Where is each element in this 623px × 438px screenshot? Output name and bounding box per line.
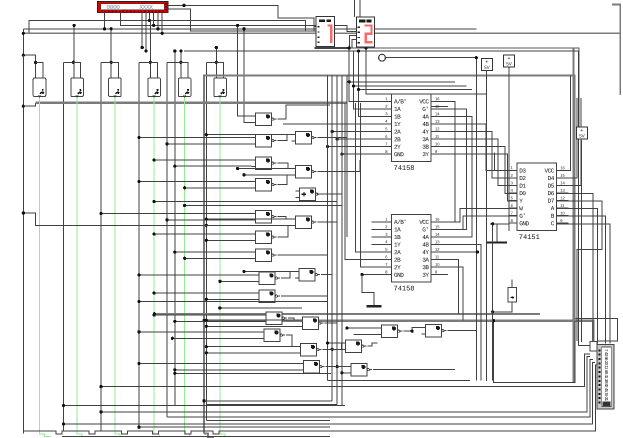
svg-text:A/B': A/B' <box>394 98 406 105</box>
gate U27 <box>297 344 322 356</box>
wire <box>205 224 208 227</box>
wire <box>185 187 252 189</box>
wire <box>139 61 150 63</box>
wire <box>411 330 414 333</box>
svg-text:2A: 2A <box>394 249 401 256</box>
wire <box>175 369 300 371</box>
svg-text:3Y: 3Y <box>422 151 429 158</box>
wire <box>179 49 182 52</box>
wire <box>205 319 208 322</box>
switch S2 <box>71 78 84 98</box>
gate U30 <box>347 364 372 376</box>
wire <box>431 251 477 253</box>
svg-text:4Y: 4Y <box>422 129 429 136</box>
wire <box>205 218 208 221</box>
wire <box>318 160 360 172</box>
svg-text:D3: D3 <box>519 168 526 175</box>
wire <box>244 271 295 273</box>
wire <box>206 61 216 63</box>
wire <box>242 270 245 273</box>
wire <box>350 36 357 48</box>
wire <box>202 319 205 322</box>
wire <box>62 436 330 438</box>
wire <box>242 173 245 176</box>
wire <box>161 32 164 35</box>
wire <box>139 181 252 183</box>
svg-text:0000: 0000 <box>106 4 120 11</box>
wire <box>23 213 251 226</box>
wire <box>101 354 590 387</box>
wire <box>318 221 338 223</box>
wire <box>99 410 102 413</box>
gate U31 <box>378 325 403 337</box>
wire <box>341 252 343 406</box>
power VCC2 +5V <box>504 55 515 67</box>
wire <box>347 327 378 329</box>
svg-text:5V: 5V <box>484 65 491 70</box>
wire <box>340 153 343 156</box>
wire <box>137 362 140 365</box>
wire <box>346 76 348 237</box>
svg-text:1Y: 1Y <box>394 121 401 128</box>
svg-text:74158: 74158 <box>393 285 414 293</box>
wire <box>153 200 156 203</box>
svg-text:G': G' <box>422 226 428 233</box>
wire <box>236 24 239 27</box>
wire <box>167 61 181 63</box>
wire <box>101 61 111 63</box>
power VCC1 +5V <box>482 58 493 70</box>
wire <box>173 372 176 375</box>
wire <box>154 97 165 436</box>
wire <box>345 103 372 260</box>
switch S6 <box>214 78 227 98</box>
wire <box>336 76 338 405</box>
gate U32 <box>422 325 447 337</box>
svg-text:74151: 74151 <box>519 234 540 242</box>
gate U23 <box>255 290 280 302</box>
wire <box>318 137 347 139</box>
wire <box>139 331 260 333</box>
svg-text:VCC: VCC <box>419 219 429 226</box>
svg-text:G': G' <box>519 213 525 220</box>
wire <box>172 337 260 339</box>
wire <box>349 81 455 83</box>
wire <box>175 372 331 374</box>
wire <box>149 21 151 79</box>
svg-text:3A: 3A <box>422 257 429 264</box>
wire <box>364 46 367 49</box>
svg-text:GND: GND <box>394 272 404 279</box>
svg-text:10: 10 <box>435 262 440 267</box>
svg-text:13: 13 <box>435 119 440 124</box>
wire <box>22 105 25 108</box>
wire <box>361 103 372 267</box>
IC U1 74158 <box>372 94 444 173</box>
wire <box>359 51 392 116</box>
wire <box>161 13 163 34</box>
IC U2 74158 <box>372 215 444 294</box>
wire <box>22 54 25 57</box>
wire <box>321 274 332 276</box>
wire <box>278 225 292 237</box>
wire <box>493 152 495 170</box>
svg-text:D0: D0 <box>519 190 526 197</box>
wire <box>23 55 35 79</box>
switch S5 <box>178 78 191 98</box>
wire <box>153 13 155 26</box>
wire <box>431 154 517 201</box>
wire <box>153 233 156 236</box>
wire <box>278 135 292 141</box>
wire <box>220 97 231 436</box>
wire <box>328 380 471 382</box>
svg-text:14: 14 <box>435 111 440 116</box>
svg-text:10: 10 <box>560 211 565 216</box>
IC U3 74151 <box>509 163 569 242</box>
wire <box>491 310 494 313</box>
gate U15 <box>292 166 317 178</box>
wire <box>22 32 25 35</box>
wire <box>168 9 316 31</box>
switch S4 <box>148 78 161 98</box>
wire <box>337 366 347 368</box>
svg-text:14: 14 <box>435 232 440 237</box>
wire <box>145 13 147 51</box>
wire <box>62 422 65 425</box>
svg-text:4Y: 4Y <box>422 249 429 256</box>
wire <box>173 49 176 52</box>
svg-text:GND: GND <box>519 220 529 227</box>
wire <box>362 274 371 276</box>
svg-text:D1: D1 <box>519 183 526 190</box>
wire <box>244 174 292 176</box>
wire <box>185 204 342 206</box>
svg-text:3B: 3B <box>422 264 429 271</box>
wire <box>288 318 298 320</box>
node open terminal <box>379 54 386 61</box>
wire <box>204 321 593 346</box>
gate U25 <box>299 317 324 329</box>
wire <box>326 366 347 368</box>
wire <box>206 420 330 422</box>
wire <box>555 98 581 186</box>
wire <box>36 102 347 104</box>
wire <box>110 29 112 78</box>
wire <box>154 159 251 161</box>
wire <box>206 218 291 220</box>
wire <box>206 134 291 136</box>
svg-text:5V: 5V <box>579 133 586 138</box>
gate U20 <box>252 249 277 261</box>
wire <box>281 272 295 279</box>
svg-text:2A: 2A <box>394 129 401 136</box>
wire <box>555 224 610 344</box>
wire <box>171 337 174 340</box>
wire <box>431 216 517 229</box>
svg-text:GND: GND <box>394 151 404 158</box>
wire <box>431 274 448 276</box>
wire <box>392 109 467 229</box>
wire <box>220 307 302 309</box>
wire <box>64 362 595 424</box>
svg-text:10: 10 <box>435 141 440 146</box>
wire <box>431 267 463 321</box>
wire <box>39 97 50 436</box>
wire <box>205 298 208 301</box>
wire <box>476 250 479 253</box>
wire <box>348 80 351 83</box>
wire <box>348 46 351 49</box>
wire <box>99 385 102 388</box>
wire <box>23 5 620 34</box>
wire <box>141 13 143 48</box>
wire <box>242 27 245 30</box>
wire <box>475 56 478 59</box>
wire <box>62 404 65 407</box>
wire <box>149 13 151 21</box>
wire <box>317 193 342 195</box>
svg-text:15: 15 <box>435 104 440 109</box>
display LCD1 <box>98 2 169 13</box>
wire <box>286 335 296 346</box>
svg-text:D7: D7 <box>548 198 555 205</box>
wire <box>349 48 391 101</box>
wire <box>315 47 350 49</box>
svg-text:4A: 4A <box>422 234 429 241</box>
wire <box>144 49 147 52</box>
wire <box>111 63 118 80</box>
wire <box>331 348 334 351</box>
wire <box>204 400 332 402</box>
wire <box>238 168 292 170</box>
wire <box>357 49 360 52</box>
svg-text:5V: 5V <box>506 61 513 66</box>
wire <box>137 136 140 139</box>
svg-text:A/B': A/B' <box>394 219 406 226</box>
wire <box>238 25 252 116</box>
wire <box>137 330 140 333</box>
wire <box>22 29 24 55</box>
gate U19 <box>292 216 317 228</box>
wire <box>325 322 338 324</box>
wire <box>204 76 574 434</box>
wire <box>356 103 372 252</box>
wire <box>352 40 356 48</box>
wire <box>63 62 65 431</box>
wire <box>204 434 214 438</box>
svg-text:1B: 1B <box>394 114 401 121</box>
wire <box>202 399 205 402</box>
wire <box>357 88 360 91</box>
wire <box>218 306 221 309</box>
wire <box>555 76 571 171</box>
wire <box>110 27 113 30</box>
wire <box>373 369 455 371</box>
wire <box>153 292 156 295</box>
wire <box>153 312 156 315</box>
wire <box>361 273 364 276</box>
wire <box>555 201 603 341</box>
wire <box>366 48 486 94</box>
wire <box>206 239 251 241</box>
svg-text:2B: 2B <box>394 136 401 143</box>
wire <box>64 61 74 63</box>
wire <box>431 106 448 108</box>
wire <box>342 372 347 374</box>
wire <box>331 76 333 401</box>
wire <box>431 244 481 380</box>
wire <box>490 224 497 243</box>
wire <box>185 257 252 259</box>
wire <box>218 280 221 283</box>
wire <box>345 327 348 330</box>
svg-text:16: 16 <box>435 217 440 222</box>
svg-text:2B: 2B <box>394 257 401 264</box>
wire <box>139 137 252 139</box>
wire <box>555 209 598 344</box>
wire <box>576 318 618 341</box>
svg-text:1B: 1B <box>394 234 401 241</box>
svg-text:VCC: VCC <box>419 98 429 105</box>
wire <box>137 274 140 277</box>
wire <box>205 62 207 420</box>
wire <box>64 405 345 407</box>
wire <box>23 103 35 106</box>
wire <box>154 201 337 203</box>
wire <box>23 365 597 434</box>
connector JP1 <box>590 342 614 409</box>
svg-text:12: 12 <box>435 126 440 131</box>
wire <box>182 4 185 7</box>
wire <box>149 61 152 64</box>
wire <box>167 359 593 416</box>
wire <box>368 343 378 346</box>
wire <box>165 142 168 145</box>
wire <box>205 325 208 328</box>
wire <box>581 140 583 342</box>
wire <box>173 251 176 254</box>
wire <box>491 222 494 225</box>
wire <box>278 175 292 185</box>
wire <box>103 27 106 30</box>
svg-text:13: 13 <box>435 239 440 244</box>
wire <box>215 46 218 49</box>
wire <box>154 292 255 294</box>
wire <box>174 51 176 406</box>
svg-text:4B: 4B <box>422 241 429 248</box>
wire <box>362 275 374 306</box>
wire <box>206 404 337 406</box>
svg-text:2Y: 2Y <box>394 144 401 151</box>
wire <box>181 63 188 80</box>
wire <box>141 46 144 49</box>
wire <box>431 260 459 314</box>
wire <box>326 342 329 345</box>
wire <box>184 51 590 346</box>
gate U17 <box>252 211 277 223</box>
wire <box>166 62 168 417</box>
wire <box>110 61 113 64</box>
wire <box>555 193 593 340</box>
wire <box>205 239 208 242</box>
svg-text:D4: D4 <box>548 175 555 182</box>
gate U24 <box>262 312 287 324</box>
wire <box>555 200 567 202</box>
wire <box>180 51 182 78</box>
gate U13 <box>252 157 277 169</box>
wire <box>404 328 422 332</box>
wire <box>496 224 498 243</box>
svg-text:D5: D5 <box>548 183 555 190</box>
power VCC3 +5V <box>577 127 588 139</box>
wire <box>215 61 218 64</box>
wire <box>183 204 186 207</box>
wire <box>555 216 606 343</box>
wire <box>332 131 391 133</box>
wire <box>494 321 576 383</box>
wire <box>73 24 76 27</box>
wire <box>431 124 517 170</box>
svg-text:16: 16 <box>560 165 565 170</box>
wire <box>354 85 467 87</box>
wire <box>328 342 342 344</box>
svg-text:G': G' <box>422 106 428 113</box>
wire <box>101 356 590 411</box>
wire <box>167 143 252 145</box>
switch S1 <box>33 78 46 98</box>
svg-text:15: 15 <box>560 173 565 178</box>
wire <box>220 280 255 282</box>
gate U22 <box>295 269 320 281</box>
wire <box>359 89 473 91</box>
wire <box>431 209 517 222</box>
wire <box>448 330 477 332</box>
wire <box>152 24 155 27</box>
wire <box>205 133 208 136</box>
wire <box>326 145 329 148</box>
wire <box>22 211 25 214</box>
wire <box>175 320 262 322</box>
wire <box>336 138 339 141</box>
svg-text:VCC: VCC <box>544 167 554 174</box>
wire <box>216 63 223 80</box>
wire <box>167 219 252 221</box>
wire <box>327 76 329 381</box>
wire <box>36 63 43 80</box>
wire <box>508 67 510 231</box>
wire <box>352 84 355 87</box>
wire <box>283 123 392 125</box>
wire <box>492 224 494 381</box>
svg-text:12: 12 <box>560 195 565 200</box>
wire <box>281 295 327 297</box>
wire <box>183 186 186 189</box>
wire <box>486 70 488 381</box>
wire <box>206 224 291 226</box>
ground <box>487 238 507 243</box>
wire <box>22 55 24 433</box>
wire <box>206 325 298 327</box>
wire <box>99 212 102 215</box>
wire <box>328 146 392 148</box>
wire <box>183 257 186 260</box>
wire <box>236 167 239 170</box>
wire <box>115 97 126 436</box>
wire <box>179 61 182 64</box>
wire <box>205 345 208 348</box>
svg-text:15: 15 <box>435 224 440 229</box>
